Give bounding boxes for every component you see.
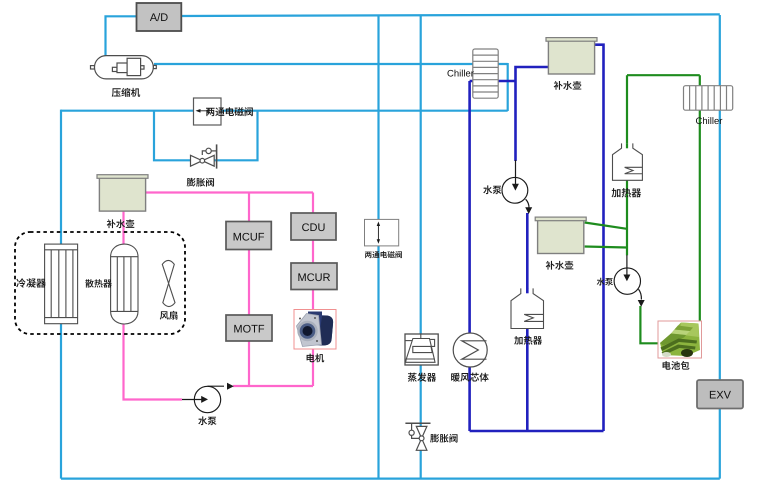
wire: compressor outlet to chiller1 xyxy=(154,63,508,65)
wire: cyan vertical x378 through solenoid valve 2 xyxy=(377,15,379,479)
wire: middle cyan horizontal through solenoid valve 1 xyxy=(61,110,508,112)
label A/D xyxy=(150,13,168,21)
radiator xyxy=(111,244,138,324)
label 膨胀阀 xyxy=(430,434,457,443)
condenser xyxy=(45,244,78,324)
wire: green stub into heater1 mouth xyxy=(626,143,628,148)
fan xyxy=(162,260,175,306)
chiller 1 (plate stack) xyxy=(473,49,498,98)
compressor xyxy=(91,56,157,79)
wire: right cyan vertical through Chiller2 and EXV xyxy=(719,15,721,479)
wire: pink bottom after pump3 xyxy=(233,385,313,387)
wire: pink MCUF/MOTF column xyxy=(248,193,250,387)
MOTF box xyxy=(226,315,272,341)
label 加热器 xyxy=(612,188,642,197)
label EXV xyxy=(710,391,731,399)
evaporator xyxy=(405,334,438,365)
MCUF box xyxy=(226,222,271,250)
label 水泵 xyxy=(597,278,613,286)
pump2 (green) xyxy=(614,255,645,307)
expansion valve 1 (bypass bowtie) xyxy=(191,144,217,168)
heater 2 (navy loop bottle) xyxy=(511,288,544,328)
EXV box xyxy=(697,380,743,409)
heater core circle xyxy=(453,333,487,367)
battery pack (photo-like) xyxy=(658,321,702,358)
wire: bypass loop with expansion valve 1 xyxy=(154,111,258,161)
wire: green top horizontal xyxy=(627,74,700,76)
kettle 3 (pink loop) xyxy=(97,175,148,211)
wire: left cyan vertical through condenser xyxy=(60,110,62,479)
label Chiller xyxy=(447,70,473,77)
MCUR box xyxy=(291,263,337,290)
wire: cyan vertical x420 through evaporator and valve 2 xyxy=(420,15,422,479)
label 膨胀阀 xyxy=(187,178,214,187)
pump1 (navy) xyxy=(502,160,532,214)
wire: navy kettle1 right branch down right side xyxy=(595,45,604,431)
kettle 2 (green loop) xyxy=(535,217,586,253)
label 水泵 xyxy=(198,416,216,425)
wire: navy left vertical through heater core xyxy=(468,81,471,431)
dashed enclosure xyxy=(15,232,185,334)
wire: green right vertical through chiller2 to battery xyxy=(699,75,701,322)
wire: top cyan bus from A/D to right side xyxy=(181,14,720,16)
solenoid valve 1 box xyxy=(194,98,222,125)
wire: green kettle2 lower tap xyxy=(585,247,627,248)
wire: navy pump1 outlet through heater2 xyxy=(526,213,529,431)
label Chiller xyxy=(696,117,722,124)
wire: green kettle2 upper tap xyxy=(585,223,627,229)
wire: pink kettle3 down through radiator to pump3 xyxy=(124,209,183,400)
wire: pink CDU/MCUR/motor column xyxy=(312,193,314,387)
wire: refrigerant loop1 A/D to compressor xyxy=(106,16,137,56)
label 两通电磁阀 xyxy=(365,251,402,258)
A/D box xyxy=(137,3,182,31)
kettle 1 (navy loop) xyxy=(546,38,597,74)
wire: chiller1 right cyan vertical xyxy=(507,63,509,111)
label MCUF xyxy=(234,233,264,241)
label 电机 xyxy=(307,354,325,363)
wire: navy through chiller1 xyxy=(470,80,516,83)
label 压缩机 xyxy=(112,88,140,97)
label MCUR xyxy=(298,273,330,281)
label 蒸发器 xyxy=(408,373,436,382)
label 补水壶 xyxy=(546,261,574,270)
label 两通电磁阀 xyxy=(206,107,253,116)
label 补水壶 xyxy=(554,81,582,90)
expansion valve 2 (bottom) xyxy=(405,423,430,450)
wire: pink top horizontal from kettle3 xyxy=(145,191,313,193)
pump3 (pink) xyxy=(182,383,234,413)
wire: bottom cyan bus xyxy=(61,478,720,480)
label CDU xyxy=(302,223,324,231)
heater 1 (green loop bottle) xyxy=(613,143,643,180)
label 暖风芯体 xyxy=(451,373,489,382)
CDU box xyxy=(291,213,336,240)
label 水泵 xyxy=(483,185,501,194)
label 补水壶 xyxy=(107,219,135,228)
solenoid valve 2 box xyxy=(365,219,399,246)
label 散热器 xyxy=(85,279,112,287)
label 加热器 xyxy=(514,336,542,345)
wire: green pump2 outlet to battery xyxy=(640,306,659,343)
label 电池包 xyxy=(663,361,690,370)
label 冷凝器 xyxy=(16,278,46,287)
wire: navy bottom bus xyxy=(470,430,604,433)
label 风扇 xyxy=(160,311,178,320)
chiller 2 (plate stack horizontal) xyxy=(684,86,733,111)
motor U1 (photo-like) xyxy=(294,310,336,350)
wire: navy stub into heater2 mouth xyxy=(526,288,529,293)
label MOTF xyxy=(234,325,264,333)
wire: green left vertical through heater1 to pump2 xyxy=(626,75,628,255)
wire: navy kettle1 left branch down to pump1 xyxy=(516,67,549,161)
